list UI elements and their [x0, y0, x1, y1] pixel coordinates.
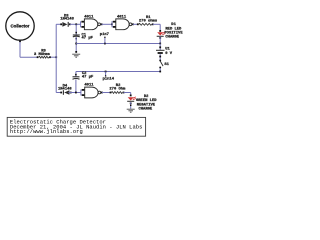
svg-text:4011: 4011 [117, 15, 127, 19]
svg-text:270 ohms: 270 ohms [139, 18, 158, 23]
svg-text:CHARGE: CHARGE [139, 108, 153, 112]
svg-text:pin14: pin14 [103, 76, 115, 81]
svg-text:4011: 4011 [84, 84, 94, 88]
svg-text:CHARGE: CHARGE [165, 36, 179, 40]
svg-text:9 V: 9 V [165, 52, 173, 56]
svg-text:U1: U1 [165, 47, 170, 51]
svg-text:270 Ohm: 270 Ohm [109, 86, 126, 91]
svg-text:1N4148: 1N4148 [58, 87, 72, 91]
svg-text:3 MOhms: 3 MOhms [34, 52, 51, 57]
svg-text:pin7: pin7 [100, 32, 110, 37]
svg-text:S1: S1 [164, 63, 169, 67]
svg-text:47 µF: 47 µF [82, 75, 94, 79]
svg-text:1N4148: 1N4148 [60, 17, 74, 21]
svg-text:http://www.jlnlabs.org: http://www.jlnlabs.org [10, 128, 83, 135]
svg-text:Collector: Collector [10, 23, 29, 28]
svg-text:47 µF: 47 µF [82, 37, 94, 41]
svg-text:4011: 4011 [84, 15, 94, 19]
